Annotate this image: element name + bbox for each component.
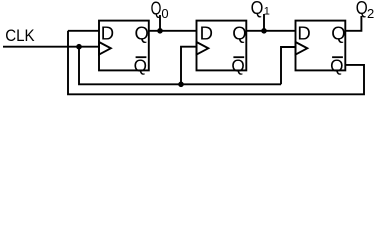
wire clock branch to U3 [281,47,296,84]
svg-text:Q: Q [151,0,162,19]
flip-flop U2 clock triangle [197,42,209,55]
flip-flop U3 box [296,21,346,71]
node Q0 junction [157,28,163,34]
wire CLK input [3,46,99,48]
svg-text:Q: Q [330,56,343,76]
svg-text:Q: Q [232,22,246,43]
flip-flop U3 clock triangle [296,42,308,55]
flip-flop U1 box [99,21,149,71]
svg-text:Q: Q [135,22,149,43]
wire Q1 from U2 Q to U3 D [246,30,295,32]
svg-text:D: D [200,22,213,43]
svg-text:2: 2 [367,6,374,21]
node Q1 junction [261,28,267,34]
flip-flop U2 box [197,21,247,71]
svg-text:CLK: CLK [5,27,34,45]
svg-text:1: 1 [264,5,270,17]
wire Q1 riser [263,14,265,31]
wire Q0 riser [159,15,161,31]
svg-text:Q: Q [251,0,264,18]
svg-text:Q: Q [134,56,147,76]
wire D1 input stub [68,30,99,32]
svg-text:0: 0 [161,6,168,21]
svg-text:Q: Q [231,56,244,76]
wire feedback Q3bar to D1 [68,31,364,95]
wire Q2 from U3 Q [345,16,361,31]
svg-text:Q: Q [331,22,345,43]
svg-text:Q: Q [356,0,368,18]
wire clock branch to U2 [181,47,197,85]
svg-text:D: D [297,22,310,43]
svg-text:D: D [101,22,114,43]
flip-flop U1 clock triangle [99,42,111,55]
node clock junction stage2 [178,82,184,88]
node CLK junction [76,44,82,50]
wire Q0 from U1 Q to U2 D [149,30,197,32]
wire clock riser stage1 [79,47,281,85]
